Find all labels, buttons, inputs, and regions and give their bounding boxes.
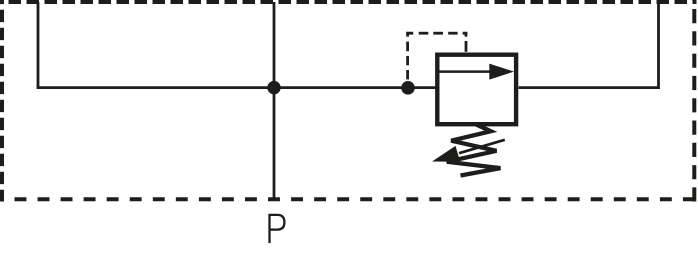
wire: right vertical up to top boundary (657, 2, 660, 89)
wire: valve outlet horizontal line (519, 86, 659, 89)
enclosure dashed boundary top edge (0, 0, 697, 4)
valve U1: pressure relief valve body (square) (437, 55, 516, 125)
enclosure dashed boundary right edge (692, 0, 696, 202)
enclosure dashed boundary left edge (0, 0, 4, 202)
port label P (270, 215, 285, 243)
junction node at pilot tap (401, 81, 415, 95)
wire: left vertical from top boundary down (37, 2, 40, 88)
enclosure dashed boundary bottom edge (0, 197, 697, 201)
junction node at P line (267, 81, 280, 94)
adjustment arrow shaft across spring (459, 140, 505, 153)
pilot line (dashed) from tap node up, right, down to valve top (406, 32, 467, 80)
spring: zigzag below valve body (447, 124, 501, 175)
wire: port P vertical line (273, 2, 276, 199)
wire: main horizontal line to valve inlet (37, 86, 436, 89)
valve flow-path arrow inside body (439, 70, 492, 73)
adjustment arrowhead (432, 146, 460, 162)
valve flow-path arrowhead (489, 64, 514, 80)
